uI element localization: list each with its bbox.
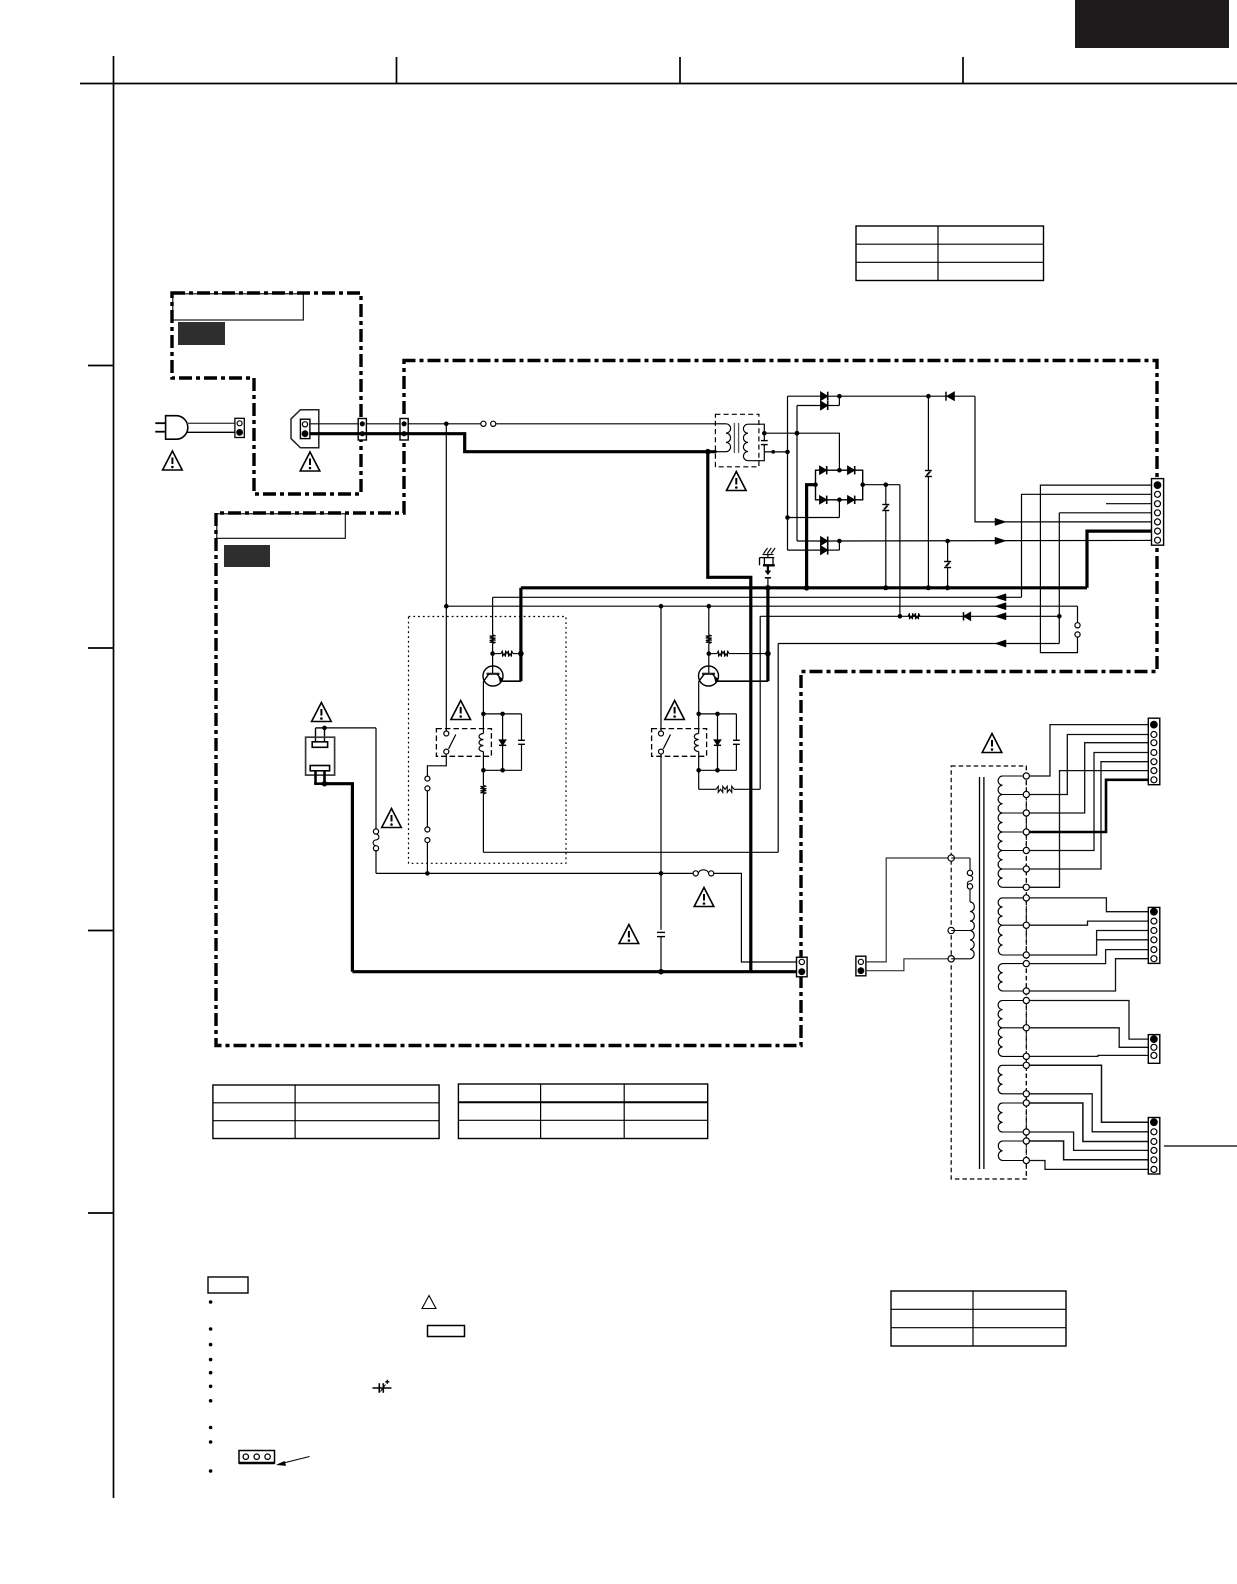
row 541 to connector pin7 [828, 539, 1152, 542]
wire riser x797 [796, 406, 798, 542]
diode D8 across RY2 coil [717, 714, 719, 740]
relay RY2 contact [659, 731, 664, 736]
F1 top staple [316, 727, 325, 729]
row 874 to connector [714, 873, 797, 962]
T2 secondary terminal strip dashed line [1025, 766, 1027, 1179]
wire Q1 emitter [482, 682, 484, 714]
line filter T1 core [733, 423, 735, 453]
row 597 (Q1 base feed from CN1-2) [493, 596, 1022, 598]
connector CN4 [1148, 1035, 1160, 1064]
hot-circuit boundary 2 (dash-dot outline, main) [216, 361, 1157, 1046]
border tick top x680 [679, 57, 681, 84]
warning triangle (C4) [619, 925, 639, 944]
node Q1 base [490, 651, 495, 656]
surge absorber Z2 on x886 [885, 485, 887, 504]
relay RY1 contact [444, 731, 449, 736]
chassis ground hatch [763, 554, 774, 556]
bridge diode top-left [820, 466, 827, 474]
wire CN5 to page edge [1164, 1145, 1237, 1147]
border tick left y365 [88, 365, 114, 367]
capacitor C1 across T1 output [763, 433, 765, 440]
wire Q2 collector [716, 680, 768, 682]
wire T1 out top [748, 424, 764, 433]
pass-through connector CN-B on boundary 2 [400, 419, 408, 441]
legend bullets [209, 1300, 213, 1304]
border frame top rule [80, 83, 1237, 85]
diode D1 [788, 395, 821, 397]
transistor Q2 [699, 666, 719, 686]
T2 secondary winding G [998, 1141, 1002, 1161]
flow arrow right row 522 [995, 518, 1006, 525]
warning triangle (T2) [982, 734, 1002, 753]
legend pointer arrow [280, 1457, 310, 1465]
border frame left rule [113, 56, 115, 1498]
wire AC-L to RY1 contact [445, 424, 447, 731]
node 452/787 [785, 450, 790, 455]
RY1 coil rail bottom [483, 769, 521, 771]
table middle-left [213, 1085, 439, 1139]
boundary 2 label (black fill) [224, 545, 270, 567]
AC cord upper wire [187, 422, 235, 424]
thick return rail y972 [352, 970, 796, 973]
thick wire bridge minus to rail 588 [807, 485, 816, 588]
relay RY2 dashed box [652, 729, 707, 757]
AC line wire (thin) [310, 423, 481, 425]
table middle-right [458, 1084, 707, 1139]
warning triangle (RY2) [665, 701, 685, 720]
resistor R5 on row 616 [908, 613, 920, 619]
relay RY1 dashed box [436, 729, 491, 757]
transistor Q1 [483, 666, 503, 686]
border tick left y1213 [88, 1212, 114, 1214]
legend box symbol [428, 1326, 465, 1337]
fuse F2 on row 874 [693, 871, 698, 876]
top rail 396 [828, 395, 975, 397]
spark gap SG1 [767, 555, 769, 558]
T2 secondary winding F [998, 1103, 1002, 1132]
capacitor C4 [657, 931, 665, 933]
node RY1 chain / row874 [425, 871, 430, 876]
diode D2 [797, 405, 821, 407]
RY2 contact output chain [660, 754, 662, 930]
connector CN-C on boundary (2-pin) [797, 957, 808, 977]
resistor R4 (Q2 base-collector) [709, 653, 717, 655]
connector CN1 (boundary) [1152, 479, 1164, 546]
T2 winding A wires to connector CN2 [1029, 725, 1148, 776]
T2 secondary winding E [998, 1065, 1002, 1094]
border tick left y930 [88, 930, 114, 932]
riser row616 to relay2 resistor [759, 616, 761, 789]
AC cord connector [235, 418, 244, 437]
warning triangle (line filter) [727, 472, 747, 491]
wire row597 to Q1 base resistor [492, 597, 494, 635]
wire left riser x787 [787, 396, 789, 550]
AC cord lower wire [187, 431, 235, 433]
wire row606 to RY2 contact [660, 606, 662, 731]
T2 winding E/F/G wires to connector CN5 [1029, 1065, 1148, 1122]
row 517 [788, 517, 840, 519]
AC neutral wire (thick) [310, 434, 717, 452]
border tick top x396 [396, 57, 398, 84]
AC inlet J1 outline [291, 410, 319, 448]
node T1 out top [762, 431, 767, 436]
rail 588 junction dots [765, 585, 771, 591]
legend 3-pin connector symbol [239, 1451, 275, 1464]
legend NOTE box [208, 1277, 248, 1293]
stub to CN1 pin3 [1106, 503, 1152, 505]
capacitor C3 across RY2 coil [735, 714, 737, 740]
connector CN5 [1148, 1118, 1160, 1175]
T2 winding D wires to connector CN4 [1029, 1001, 1148, 1040]
row 616 [760, 615, 1059, 617]
capacitor C2 across RY1 coil [521, 714, 523, 740]
bridge bottom to row 517 [838, 500, 840, 518]
row 606 (relay contact / Q2 base feed) [446, 605, 1077, 607]
warning triangle (choke) [382, 809, 402, 828]
diode D6 (pointing left) row 616 [963, 612, 965, 620]
relay RY1 coil [482, 714, 484, 734]
node D1/D2 cathode join [838, 396, 840, 405]
line filter T1 left winding [717, 423, 727, 425]
power transformer T2 dashed box [951, 766, 1026, 1179]
riser row644 to bottom rail [777, 644, 779, 853]
wire 452 out [764, 451, 787, 453]
boundary 2 label box [217, 514, 345, 539]
boundary 1 label (black fill) [178, 322, 225, 345]
T2 primary terminals [948, 855, 954, 861]
resistor R1 (Q1 base upper) [490, 635, 496, 644]
line filter T1 right winding [743, 424, 748, 460]
rail 433 to bridge top [764, 433, 839, 470]
wire F1 top to choke [325, 727, 377, 729]
legend electrolytic capacitor symbol [373, 1387, 392, 1389]
T2 primary thermal fuse [951, 857, 970, 859]
T2 secondary winding B [998, 898, 1002, 955]
node D4/D5 join [828, 549, 840, 551]
T2 secondary winding C [998, 964, 1002, 991]
resistor R3 (Q2 base upper) [706, 635, 712, 644]
thermal protector F1 body [306, 737, 335, 775]
thick riser to pin6 [1087, 531, 1152, 588]
wire x900 riser [899, 485, 901, 617]
warning triangle (plug) [163, 451, 183, 470]
wire CN-D to primary top [866, 858, 951, 962]
diode D3 (pointing left) on top rail [945, 392, 947, 401]
thick drop rail588 to Q1 collector [519, 588, 522, 681]
RY1 contact output chain [427, 754, 446, 776]
interlock contacts on AC line [481, 421, 486, 426]
connector CN3 [1148, 907, 1160, 963]
RY2 coil rail top [699, 713, 737, 715]
flow arrow left row 606 [995, 603, 1006, 610]
resistor R7 below RY2 [698, 770, 700, 789]
pass-through connector CN-A on boundary 1 [358, 419, 366, 441]
bridge diode bottom-left [820, 496, 827, 504]
hot-circuit boundary 1 (dash-dot outline) [172, 291, 361, 494]
AC inlet pin L (open) [302, 422, 307, 427]
warning triangle (RY1) [451, 701, 471, 720]
wire row606 to Q2 base resistor [708, 606, 710, 635]
connector CN2 [1148, 718, 1160, 785]
boundary 1 label box [173, 294, 303, 320]
border tick top x963 [962, 57, 964, 84]
table bottom-right [891, 1291, 1066, 1346]
bridge diode top-right [848, 466, 855, 474]
T2 winding B/C wires to connector CN3 [1029, 898, 1148, 912]
relay common bottom rail y852 [483, 851, 778, 853]
node Q2 base [707, 651, 712, 656]
flow arrow right row 541 [995, 537, 1006, 544]
RY2 coil rail bottom [699, 769, 737, 771]
surge absorber Z3 on x947 [947, 541, 949, 561]
wire Q1 collector [500, 680, 521, 682]
bridge rectifier DB1 outline [816, 470, 863, 500]
T2 secondary winding D [998, 1001, 1002, 1057]
thick wire F1 to rail 972 [325, 784, 353, 972]
thermal protector contacts on pin1 line [1077, 606, 1079, 623]
bridge diode bottom-right [848, 496, 855, 504]
line filter T1 dashed box [715, 414, 759, 467]
F1 bottom leads (thick) [314, 771, 317, 784]
warning triangle (F1) [312, 703, 332, 722]
wire T1 out bottom [748, 452, 764, 461]
T2 primary winding upper [970, 902, 974, 931]
connector CN-D (transformer primary, 2-pin) [856, 956, 866, 976]
border tick left y648 [88, 647, 114, 649]
RY1 coil rail top [483, 713, 521, 715]
page number block (black) [1075, 0, 1229, 48]
table top-right [856, 226, 1044, 281]
legend triangle symbol [422, 1296, 436, 1309]
thick drop x768 to Q2 collector [766, 588, 769, 681]
wire top rail to row 522 [975, 396, 1152, 522]
relay RY2 coil [698, 714, 700, 734]
wire bridge plus [863, 484, 900, 486]
warning triangle (fuse F2) [694, 888, 714, 907]
AC plug prong lower [155, 431, 165, 433]
node AC-N junction [705, 449, 711, 455]
T2 primary tap [951, 930, 970, 932]
diode D4 [797, 540, 821, 542]
wire Q2 emitter [698, 682, 700, 714]
row 874 [376, 872, 693, 874]
node AC-L junction [444, 422, 449, 427]
flow arrow left row 597 [995, 594, 1006, 601]
AC plug prong upper [155, 422, 165, 424]
resistor R2 (Q1 base-collector) [493, 653, 501, 655]
warning triangle (inlet) [300, 452, 320, 471]
T2 core [979, 777, 981, 1169]
flow arrow left row 616 [995, 613, 1006, 620]
AC plug P1 body [166, 416, 188, 440]
thick DC rail y588 [521, 586, 1087, 589]
bridge nodes [837, 468, 842, 473]
diode D5 [788, 549, 821, 551]
T2 primary winding lower [970, 931, 974, 959]
diode D7 across RY1 coil [502, 714, 504, 740]
row 644 [778, 643, 1059, 645]
flow arrow left row 644 [995, 640, 1006, 647]
T2 winding A thick wire to CN2 pin7 [1029, 780, 1148, 832]
choke L1 [375, 728, 377, 829]
relay sub-circuit dotted box [409, 617, 567, 864]
AC inlet pin housing [300, 419, 310, 438]
thick feed from AC-N down to primary return [708, 452, 751, 972]
wire CN1 pin4 drop [1059, 512, 1151, 514]
T2 secondary winding A [998, 776, 1002, 887]
wire CN-D to primary bottom [866, 959, 951, 971]
node F1 top [322, 726, 327, 731]
wire CN1 pin2 drop [1022, 494, 1152, 597]
resistor R6 below RY1 [482, 770, 484, 785]
AC inlet pin N (filled) [302, 431, 308, 437]
surge absorber Z1 on x928 [927, 396, 929, 470]
